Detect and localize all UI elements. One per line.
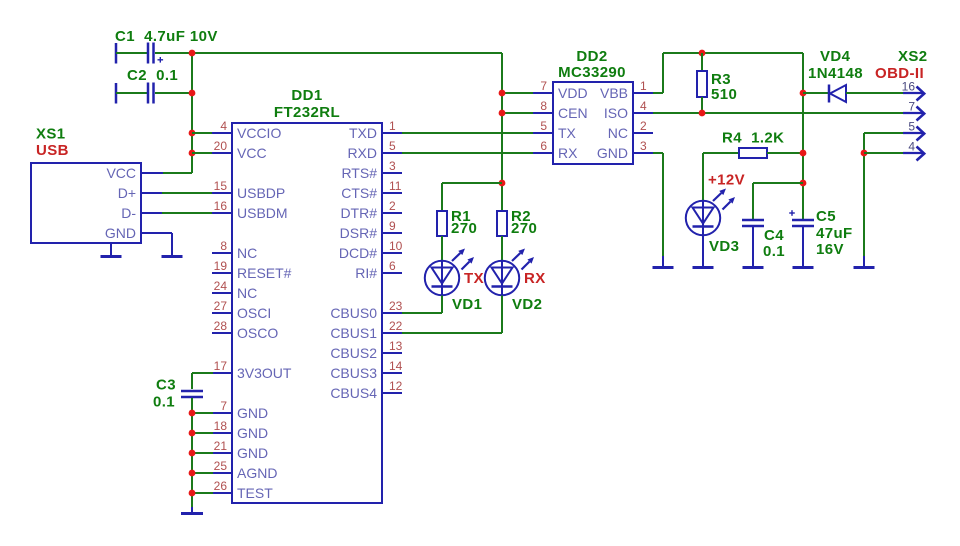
svg-text:26: 26 bbox=[214, 479, 228, 493]
label C5 voltage bbox=[816, 241, 844, 258]
label XS2 bbox=[898, 48, 928, 65]
svg-text:VCC: VCC bbox=[237, 145, 267, 161]
svg-text:510: 510 bbox=[711, 86, 737, 103]
svg-text:CBUS2: CBUS2 bbox=[330, 345, 377, 361]
wire XS2 pin4 bbox=[864, 152, 903, 154]
DD1 pin 19 RESET# bbox=[212, 259, 292, 281]
svg-text:RESET#: RESET# bbox=[237, 265, 292, 281]
DD1 pin 2 DTR# bbox=[340, 199, 402, 221]
junction CEN bbox=[499, 110, 506, 117]
junction R4/+12V rail bbox=[800, 150, 807, 157]
label OBD-II bbox=[875, 65, 924, 82]
LED VD1 bbox=[425, 249, 474, 296]
svg-text:CBUS3: CBUS3 bbox=[330, 365, 377, 381]
label R3 value bbox=[711, 86, 737, 103]
label DD2 bbox=[576, 48, 607, 65]
junction R1 branch bbox=[499, 180, 506, 187]
wire VD2 to CBUS1 bbox=[402, 296, 502, 334]
DD2 pin 8 CEN bbox=[533, 99, 588, 121]
DD1 pin 5 RXD bbox=[347, 139, 402, 161]
XS1 pin D- bbox=[121, 205, 163, 221]
svg-text:0.1: 0.1 bbox=[153, 394, 175, 411]
svg-text:6: 6 bbox=[389, 259, 396, 273]
label 1N4148 bbox=[808, 65, 863, 82]
wire D- to USBDM bbox=[162, 212, 213, 214]
DD1 pin 15 USBDP bbox=[212, 179, 285, 201]
svg-text:17: 17 bbox=[214, 359, 228, 373]
junction VDD bbox=[499, 90, 506, 97]
svg-text:CTS#: CTS# bbox=[341, 185, 377, 201]
label FT232RL bbox=[274, 104, 340, 121]
svg-text:13: 13 bbox=[389, 339, 403, 353]
svg-text:DSR#: DSR# bbox=[340, 225, 378, 241]
wire TXD to TX bbox=[402, 132, 533, 134]
svg-text:4: 4 bbox=[908, 140, 915, 154]
svg-text:7: 7 bbox=[220, 399, 227, 413]
label DD1 bbox=[291, 87, 322, 104]
LED VD2 bbox=[485, 249, 534, 296]
svg-text:47uF: 47uF bbox=[816, 225, 853, 242]
svg-text:27: 27 bbox=[214, 299, 228, 313]
svg-text:12: 12 bbox=[389, 379, 403, 393]
svg-text:28: 28 bbox=[214, 319, 228, 333]
svg-text:D+: D+ bbox=[118, 185, 136, 201]
svg-text:1N4148: 1N4148 bbox=[808, 65, 863, 82]
svg-text:21: 21 bbox=[214, 439, 228, 453]
DD1 pin 23 CBUS0 bbox=[330, 299, 402, 321]
DD2 pin 1 VBB bbox=[600, 79, 653, 101]
DD1 pin 17 3V3OUT bbox=[212, 359, 292, 381]
DD2 pin 6 RX bbox=[533, 139, 578, 161]
svg-text:C5: C5 bbox=[816, 208, 836, 225]
svg-text:10: 10 bbox=[389, 239, 403, 253]
svg-text:TX: TX bbox=[464, 270, 484, 287]
IC DD1 body bbox=[232, 123, 382, 503]
ground XS1 GND pin bbox=[162, 233, 183, 257]
svg-text:+12V: +12V bbox=[708, 172, 745, 189]
svg-text:VD4: VD4 bbox=[820, 48, 851, 65]
DD2 pin 5 TX bbox=[533, 119, 577, 141]
label VD2 bbox=[512, 296, 542, 313]
svg-text:2: 2 bbox=[640, 119, 647, 133]
wire VCC vertical (C1/C2/VCCIO/VCC) bbox=[191, 53, 193, 173]
DD1 pin 6 RI# bbox=[355, 259, 402, 281]
svg-text:14: 14 bbox=[389, 359, 403, 373]
svg-text:16: 16 bbox=[214, 199, 228, 213]
svg-text:GND: GND bbox=[105, 225, 136, 241]
junction C4 branch bbox=[800, 180, 807, 187]
junction GND 453 bbox=[189, 450, 196, 457]
junction VCCIO bbox=[189, 130, 196, 137]
svg-text:5: 5 bbox=[908, 120, 915, 134]
svg-text:16V: 16V bbox=[816, 241, 844, 258]
wire VCC rail to R1/R2 bbox=[501, 53, 503, 211]
junction C2/rail bbox=[189, 90, 196, 97]
wire XS1 VCC to VCC rail bbox=[162, 172, 192, 174]
label R1 bbox=[451, 208, 471, 225]
svg-text:11: 11 bbox=[389, 179, 402, 193]
svg-text:RI#: RI# bbox=[355, 265, 377, 281]
XS1 pin VCC bbox=[106, 165, 163, 181]
svg-text:RXD: RXD bbox=[347, 145, 377, 161]
wire R1 to VD1 bbox=[441, 236, 443, 261]
DD1 pin 9 DSR# bbox=[340, 219, 402, 241]
svg-text:RX: RX bbox=[558, 145, 578, 161]
svg-text:25: 25 bbox=[214, 459, 228, 473]
svg-text:GND: GND bbox=[237, 425, 268, 441]
label R3 bbox=[711, 71, 731, 88]
label C3 bbox=[156, 377, 176, 394]
svg-text:C3: C3 bbox=[156, 377, 176, 394]
resistor R1 bbox=[437, 211, 447, 236]
label +12V bbox=[708, 172, 745, 189]
ground C5 bbox=[793, 227, 814, 268]
ground C3/DD1 bbox=[181, 507, 203, 514]
svg-text:CEN: CEN bbox=[558, 105, 588, 121]
svg-text:VCC: VCC bbox=[106, 165, 136, 181]
svg-text:22: 22 bbox=[389, 319, 403, 333]
svg-text:USB: USB bbox=[36, 142, 69, 159]
label C3 value bbox=[153, 394, 175, 411]
svg-text:OSCI: OSCI bbox=[237, 305, 271, 321]
junction GND 473 bbox=[189, 470, 196, 477]
DD1 pin 11 CTS# bbox=[341, 179, 402, 201]
svg-text:GND: GND bbox=[237, 445, 268, 461]
junction XS2 pin4 bbox=[861, 150, 868, 157]
wire GND pin 493 bbox=[192, 492, 213, 494]
label C1 value bbox=[115, 28, 218, 45]
svg-text:VCCIO: VCCIO bbox=[237, 125, 281, 141]
DD1 pin 13 CBUS2 bbox=[330, 339, 402, 361]
junction VD4 bbox=[800, 90, 807, 97]
XS2 pin 4 bbox=[903, 140, 924, 161]
svg-text:OBD-II: OBD-II bbox=[875, 65, 924, 82]
wire VD4 left bbox=[803, 92, 829, 94]
ground DD2 GND bbox=[653, 153, 674, 268]
capacitor C4 bbox=[742, 220, 764, 226]
svg-text:USBDM: USBDM bbox=[237, 205, 288, 221]
svg-text:DCD#: DCD# bbox=[339, 245, 377, 261]
DD1 pin 26 TEST bbox=[212, 479, 273, 501]
svg-text:XS2: XS2 bbox=[898, 48, 928, 65]
wire GND pin 453 bbox=[192, 452, 213, 454]
svg-text:DTR#: DTR# bbox=[340, 205, 377, 221]
ground XS1 shield bbox=[101, 243, 122, 257]
svg-text:TEST: TEST bbox=[237, 485, 273, 501]
DD1 pin 25 AGND bbox=[212, 459, 277, 481]
label R4 value bbox=[722, 130, 784, 147]
label VD3 bbox=[709, 238, 739, 255]
svg-text:20: 20 bbox=[214, 139, 228, 153]
label MC33290 bbox=[558, 64, 626, 81]
diode VD4 bbox=[829, 85, 846, 103]
XS2 pin 16 bbox=[902, 80, 925, 101]
svg-text:CBUS4: CBUS4 bbox=[330, 385, 377, 401]
DD1 pin 7 GND bbox=[212, 399, 268, 421]
DD1 pin 4 VCCIO bbox=[212, 119, 281, 141]
svg-text:15: 15 bbox=[214, 179, 228, 193]
svg-text:TXD: TXD bbox=[349, 125, 377, 141]
DD1 pin 22 CBUS1 bbox=[330, 319, 402, 341]
svg-text:23: 23 bbox=[389, 299, 403, 313]
junction C1/rail bbox=[189, 50, 196, 57]
XS2 pin 5 bbox=[903, 120, 924, 141]
connector XS1 body bbox=[31, 163, 141, 243]
svg-text:DD2: DD2 bbox=[576, 48, 607, 65]
svg-text:VDD: VDD bbox=[558, 85, 588, 101]
junction R3 top bbox=[699, 50, 706, 57]
svg-text:MC33290: MC33290 bbox=[558, 64, 626, 81]
svg-text:OSCO: OSCO bbox=[237, 325, 278, 341]
svg-text:R4 1.2K: R4 1.2K bbox=[722, 130, 784, 147]
junction GND 413 bbox=[189, 410, 196, 417]
svg-text:DD1: DD1 bbox=[291, 87, 322, 104]
label C2 value bbox=[127, 67, 178, 84]
svg-text:VD2: VD2 bbox=[512, 296, 542, 313]
DD1 pin 21 GND bbox=[212, 439, 268, 461]
wire XS2 pin5 riser bbox=[864, 133, 903, 258]
wire VD4 to OBD pin16 bbox=[846, 92, 903, 94]
DD1 pin 28 OSCO bbox=[212, 319, 278, 341]
svg-text:VD1: VD1 bbox=[452, 296, 482, 313]
ground XS2 pins 4/5 bbox=[854, 256, 875, 268]
capacitor C3 bbox=[181, 391, 203, 397]
svg-text:16: 16 bbox=[902, 80, 916, 94]
svg-text:1: 1 bbox=[640, 79, 647, 93]
DD1 pin 8 NC bbox=[212, 239, 257, 261]
wire 3V3OUT bbox=[192, 373, 213, 389]
resistor R3 bbox=[697, 53, 707, 113]
svg-text:D-: D- bbox=[121, 205, 136, 221]
svg-text:1: 1 bbox=[389, 119, 396, 133]
ground C4 bbox=[743, 227, 764, 268]
svg-text:TX: TX bbox=[558, 125, 577, 141]
wire R1 branch bbox=[442, 183, 502, 211]
wire C3 to GND chain bbox=[191, 398, 193, 509]
svg-text:3: 3 bbox=[389, 159, 396, 173]
svg-text:7: 7 bbox=[540, 79, 547, 93]
svg-text:24: 24 bbox=[214, 279, 228, 293]
label C4 bbox=[764, 227, 784, 244]
label R1 value bbox=[451, 220, 477, 237]
wire C4 branch bbox=[753, 183, 803, 219]
wire ISO to OBD pin7 bbox=[653, 112, 903, 114]
svg-text:270: 270 bbox=[511, 220, 537, 237]
svg-text:C1 4.7uF 10V: C1 4.7uF 10V bbox=[115, 28, 218, 45]
wire D+ to USBDP bbox=[162, 192, 213, 194]
wire top right rail bbox=[663, 52, 803, 54]
svg-text:6: 6 bbox=[540, 139, 547, 153]
wire GND pin 473 bbox=[192, 472, 213, 474]
DD2 pin 4 ISO bbox=[604, 99, 653, 121]
wire GND pin 433 bbox=[192, 432, 213, 434]
svg-text:0.1: 0.1 bbox=[763, 243, 785, 260]
capacitor C2 bbox=[116, 83, 192, 104]
DD1 pin 14 CBUS3 bbox=[330, 359, 402, 381]
ground VD3 bbox=[693, 235, 714, 268]
svg-text:4: 4 bbox=[640, 99, 647, 113]
label XS1 bbox=[36, 126, 66, 143]
junction GND 433 bbox=[189, 430, 196, 437]
DD1 pin 12 CBUS4 bbox=[330, 379, 402, 401]
junction R3 bottom bbox=[699, 110, 706, 117]
svg-text:CBUS1: CBUS1 bbox=[330, 325, 377, 341]
wire R2 to VD2 bbox=[501, 236, 503, 261]
svg-text:AGND: AGND bbox=[237, 465, 277, 481]
svg-text:GND: GND bbox=[597, 145, 628, 161]
svg-text:GND: GND bbox=[237, 405, 268, 421]
svg-text:FT232RL: FT232RL bbox=[274, 104, 340, 121]
svg-text:NC: NC bbox=[608, 125, 628, 141]
svg-text:RTS#: RTS# bbox=[341, 165, 377, 181]
svg-text:ISO: ISO bbox=[604, 105, 628, 121]
svg-text:C2 0.1: C2 0.1 bbox=[127, 67, 178, 84]
svg-text:XS1: XS1 bbox=[36, 126, 66, 143]
svg-text:5: 5 bbox=[389, 139, 396, 153]
label VD4 bbox=[820, 48, 851, 65]
XS1 pin GND bbox=[105, 225, 172, 241]
wire CEN bbox=[502, 112, 533, 114]
svg-text:VD3: VD3 bbox=[709, 238, 739, 255]
wire RXD to RX bbox=[402, 152, 533, 154]
wire GND pin 413 bbox=[192, 412, 213, 414]
svg-text:5: 5 bbox=[540, 119, 547, 133]
XS2 pin 7 bbox=[903, 100, 924, 121]
svg-text:18: 18 bbox=[214, 419, 228, 433]
svg-text:8: 8 bbox=[540, 99, 547, 113]
DD1 pin 24 NC bbox=[212, 279, 257, 301]
label C4 value bbox=[763, 243, 785, 260]
DD1 pin 10 DCD# bbox=[339, 239, 403, 261]
svg-text:RX: RX bbox=[524, 270, 546, 287]
wire VCC top rail bbox=[192, 52, 502, 54]
svg-text:2: 2 bbox=[389, 199, 396, 213]
XS1 pin D+ bbox=[118, 185, 163, 201]
label TX bbox=[464, 270, 484, 287]
wire +12V vertical rail bbox=[802, 53, 804, 220]
IC DD2 body bbox=[553, 82, 633, 164]
wire VBB riser bbox=[653, 53, 663, 93]
DD1 pin 3 RTS# bbox=[341, 159, 402, 181]
svg-text:USBDP: USBDP bbox=[237, 185, 285, 201]
svg-text:9: 9 bbox=[389, 219, 396, 233]
label R2 bbox=[511, 208, 531, 225]
wire VCC pin20 bbox=[192, 152, 213, 154]
label USB bbox=[36, 142, 69, 159]
label VD1 bbox=[452, 296, 482, 313]
LED VD3 bbox=[686, 189, 735, 236]
wire VD1 to CBUS0 bbox=[402, 296, 442, 314]
wire R4 right bbox=[767, 152, 803, 154]
svg-text:NC: NC bbox=[237, 285, 257, 301]
svg-text:3: 3 bbox=[640, 139, 647, 153]
capacitor C5 bbox=[789, 210, 814, 226]
label C5 bbox=[816, 208, 836, 225]
svg-text:270: 270 bbox=[451, 220, 477, 237]
label RX bbox=[524, 270, 546, 287]
resistor R2 bbox=[497, 211, 507, 236]
svg-text:19: 19 bbox=[214, 259, 228, 273]
label R2 value bbox=[511, 220, 537, 237]
svg-text:3V3OUT: 3V3OUT bbox=[237, 365, 292, 381]
DD2 pin 7 VDD bbox=[533, 79, 588, 101]
resistor R4 bbox=[739, 148, 767, 158]
svg-text:7: 7 bbox=[908, 100, 915, 114]
svg-text:VBB: VBB bbox=[600, 85, 628, 101]
DD1 pin 20 VCC bbox=[212, 139, 267, 161]
svg-text:NC: NC bbox=[237, 245, 257, 261]
svg-text:4: 4 bbox=[220, 119, 227, 133]
DD2 pin 3 GND bbox=[597, 139, 653, 161]
junction VCC bbox=[189, 150, 196, 157]
svg-text:CBUS0: CBUS0 bbox=[330, 305, 377, 321]
DD2 pin 2 NC bbox=[608, 119, 653, 141]
junction GND 493 bbox=[189, 490, 196, 497]
svg-text:8: 8 bbox=[220, 239, 227, 253]
label C5 value bbox=[816, 225, 853, 242]
capacitor C1 bbox=[116, 43, 192, 64]
wire VDD bbox=[502, 92, 533, 94]
wire R4 left node bbox=[703, 153, 739, 201]
svg-text:C4: C4 bbox=[764, 227, 784, 244]
DD1 pin 16 USBDM bbox=[212, 199, 288, 221]
DD1 pin 27 OSCI bbox=[212, 299, 271, 321]
DD1 pin 1 TXD bbox=[349, 119, 402, 141]
DD1 pin 18 GND bbox=[212, 419, 268, 441]
wire VCCIO bbox=[192, 132, 213, 134]
